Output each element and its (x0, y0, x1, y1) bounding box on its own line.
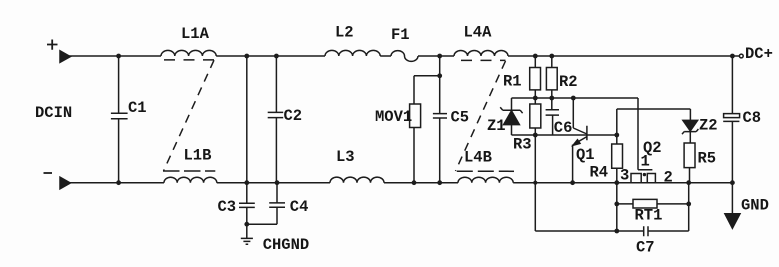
junction RT1 right node (686, 202, 691, 207)
resistor R1 (530, 56, 541, 98)
junction C1 bottom (116, 180, 121, 185)
Q2 body tabs (631, 174, 655, 183)
junction C4 top (275, 180, 280, 185)
capacitor C8 electrolytic (723, 56, 739, 183)
input arrow bottom (60, 177, 70, 189)
L4B core dash (457, 170, 514, 172)
capacitor C1 (111, 56, 128, 183)
GND stem (731, 183, 733, 214)
svg-text:R2: R2 (559, 73, 578, 91)
coupling dash L1A-L1B (164, 60, 215, 171)
capacitor C4 (247, 183, 285, 225)
resistor R2 (546, 56, 557, 98)
svg-text:RT1: RT1 (635, 207, 663, 225)
inductor L2 (325, 50, 380, 56)
wire bottom rail (217, 182, 330, 184)
junction R4 bottom rail (614, 180, 619, 185)
junction C3 C4 bottom node (244, 222, 249, 227)
svg-text:R5: R5 (698, 150, 717, 168)
svg-text:R3: R3 (513, 136, 532, 154)
svg-text:DCIN: DCIN (35, 104, 72, 122)
junction C3 top (244, 180, 249, 185)
junction RT1 left node (614, 202, 619, 207)
svg-text:C3: C3 (218, 198, 237, 216)
Q2 tab dot (643, 173, 646, 176)
left branch to C7 node (535, 135, 617, 231)
wire (384, 182, 458, 184)
svg-text:R1: R1 (503, 73, 522, 91)
wire (380, 55, 391, 57)
junction MOV1 jog (437, 73, 442, 78)
svg-text:L1B: L1B (184, 147, 212, 165)
junction node vertical top (244, 54, 249, 59)
minus terminal label (44, 172, 53, 174)
svg-text:F1: F1 (391, 26, 410, 44)
svg-text:L4A: L4A (464, 24, 493, 42)
resistor R5 (684, 143, 695, 183)
coupling dash L4A-L4B (456, 61, 506, 171)
DC+ terminal circle (739, 54, 743, 58)
capacitor C6 (546, 98, 559, 135)
svg-text:Z2: Z2 (699, 116, 718, 134)
junction C2 top (274, 54, 279, 59)
junction R2 top (549, 54, 554, 59)
svg-text:GND: GND (741, 197, 769, 215)
chassis ground CHGND (241, 238, 253, 244)
svg-text:C7: C7 (636, 239, 655, 257)
junction C7 left node (614, 229, 619, 234)
capacitor C7 (617, 226, 689, 236)
junction Q1 emitter rail (570, 180, 575, 185)
svg-text:MOV1: MOV1 (375, 108, 412, 126)
junction Q1 base R4 node (614, 133, 619, 138)
capacitor C2 (268, 56, 284, 183)
junction Q1 collector node (571, 96, 576, 101)
svg-text:2: 2 (664, 169, 673, 187)
junction R3 top node (533, 96, 538, 101)
resistor R3 (530, 98, 541, 135)
svg-text:1: 1 (641, 153, 650, 171)
svg-text:C1: C1 (128, 99, 147, 117)
junction R3 branch rail crossing (533, 181, 537, 185)
thyristor Q2 pin1 wire (638, 98, 652, 170)
svg-text:Z1: Z1 (487, 117, 506, 135)
L1A core dash (164, 59, 217, 61)
zener Z1 (500, 98, 522, 135)
junction C8 bottom (730, 180, 735, 185)
L1B core dash (163, 170, 215, 172)
capacitor C3 (239, 183, 255, 239)
svg-text:L2: L2 (335, 24, 354, 42)
junction C8 top (730, 54, 735, 59)
inductor L1A (161, 50, 216, 56)
svg-text:Q1: Q1 (576, 146, 595, 164)
inductor L3 (330, 177, 384, 183)
svg-text:L3: L3 (336, 148, 355, 166)
inductor L4B (458, 177, 513, 183)
svg-text:DC+: DC+ (745, 45, 773, 63)
wire bottom rail right (513, 182, 732, 184)
svg-text:C2: C2 (284, 107, 303, 125)
inductor L1B (164, 177, 217, 183)
svg-text:C8: C8 (743, 109, 762, 127)
node line Z1-R3-C6-Q1 (512, 134, 587, 136)
svg-text:C4: C4 (290, 198, 309, 216)
input arrow top (60, 51, 70, 63)
junction R5 bottom rail (686, 180, 691, 185)
transistor Q1 (573, 98, 587, 183)
junction MOV1 bottom (412, 180, 417, 185)
junction C6 top node (549, 96, 554, 101)
zener Z2 (683, 120, 698, 122)
thermistor RT1 (617, 199, 689, 208)
svg-text:C5: C5 (451, 109, 470, 127)
capacitor C5 (433, 56, 447, 183)
RT1 branch verticals (617, 183, 689, 231)
resistor R4 (612, 135, 623, 183)
wire vertical node (246, 56, 248, 183)
wire base node up and right to Z2 (617, 109, 691, 135)
svg-text:L1A: L1A (181, 25, 210, 43)
wire top rail (216, 55, 325, 57)
svg-text:R4: R4 (590, 164, 609, 182)
wire top rail right (508, 55, 739, 57)
junction C5 top (437, 54, 442, 59)
plus terminal label (47, 40, 58, 50)
junction C1 top (116, 54, 121, 59)
wire bottom rail left (69, 182, 164, 184)
mid node rail (512, 97, 639, 99)
L4A core dash (461, 59, 506, 61)
svg-text:C6: C6 (554, 119, 573, 137)
wire (418, 55, 454, 57)
wire top rail left (69, 55, 161, 57)
Q1 base wire (587, 134, 617, 136)
svg-text:CHGND: CHGND (263, 236, 310, 254)
junction C5 bottom (437, 180, 442, 185)
inductor L4A (454, 51, 508, 57)
svg-text:3: 3 (620, 167, 629, 185)
fuse F1 (391, 51, 418, 62)
varistor MOV1 (410, 76, 440, 183)
junction Z1 R3 bottom node (533, 133, 538, 138)
GND triangle (725, 214, 740, 228)
svg-text:L4B: L4B (464, 149, 492, 167)
junction R1 top (533, 54, 538, 59)
